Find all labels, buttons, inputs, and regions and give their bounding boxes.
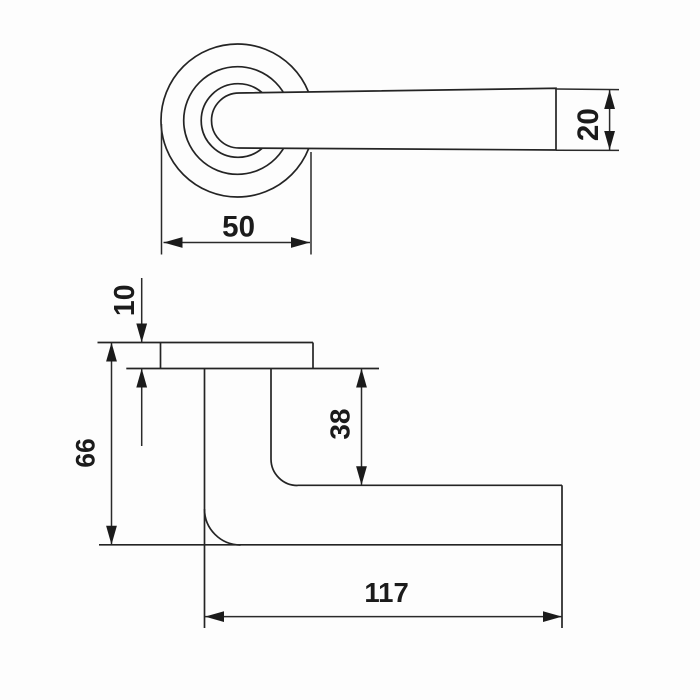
rosette left edge bbox=[160, 343, 162, 369]
svg-text:50: 50 bbox=[222, 210, 255, 243]
arrowhead 38 down bbox=[356, 466, 367, 485]
arrowhead 50 right bbox=[291, 237, 310, 248]
dimension line 50 bbox=[164, 242, 311, 244]
extension line bottom of lever end bbox=[556, 149, 619, 151]
arrowhead 20 up bbox=[604, 90, 615, 109]
rosette inner circle bbox=[201, 84, 275, 158]
dimension line 38 bbox=[361, 369, 363, 486]
svg-text:38: 38 bbox=[324, 409, 355, 440]
dimension line 10 lower bbox=[141, 369, 143, 447]
inner bend arc bbox=[271, 459, 298, 486]
neck right edge bbox=[270, 369, 272, 460]
dimension line 66 bbox=[111, 343, 113, 545]
neck left edge + 117 extension bbox=[204, 369, 206, 629]
svg-text:20: 20 bbox=[572, 108, 605, 141]
arrowhead 117 left bbox=[205, 611, 224, 622]
arrowhead 117 right bbox=[543, 611, 562, 622]
rosette right edge bbox=[312, 343, 314, 369]
dimension line 117 bbox=[205, 616, 562, 618]
arrowhead 10 down bbox=[136, 324, 147, 343]
outer bend arc bbox=[205, 509, 241, 545]
svg-text:117: 117 bbox=[364, 577, 408, 608]
arrowhead 66 down bbox=[106, 526, 117, 545]
arrowhead 10 up bbox=[136, 369, 147, 388]
rosette bottom / door line bbox=[126, 368, 379, 370]
lever right end + 117 extension bbox=[561, 485, 563, 628]
extension line 50 left bbox=[161, 124, 163, 255]
rosette outer circle (top view) bbox=[161, 44, 314, 197]
lever top line bbox=[298, 484, 563, 486]
dimension line 10 upper bbox=[141, 278, 143, 343]
arrowhead 20 down bbox=[604, 131, 615, 150]
extension line top of lever end bbox=[556, 88, 619, 91]
svg-text:66: 66 bbox=[71, 438, 101, 467]
svg-text:10: 10 bbox=[109, 284, 141, 316]
arrowhead 66 up bbox=[106, 343, 117, 362]
lever handle (top view) bbox=[212, 88, 556, 150]
extension line 50 right bbox=[310, 152, 312, 255]
rosette middle circle bbox=[184, 67, 292, 175]
arrowhead 38 up bbox=[356, 369, 367, 388]
rosette top line (side view) bbox=[98, 342, 314, 344]
arrowhead 50 left bbox=[164, 237, 183, 248]
dimension line 20 bbox=[609, 90, 611, 150]
lever bottom line + 66 extension bbox=[99, 544, 562, 546]
